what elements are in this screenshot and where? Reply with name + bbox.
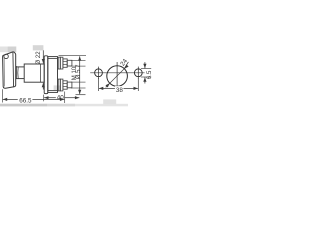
mounting flange — [44, 56, 48, 94]
svg-text:6.5: 6.5 — [146, 70, 153, 79]
dim dia22 leader — [42, 50, 44, 89]
dim dia6.5 — [141, 62, 151, 83]
svg-text:Ø 22: Ø 22 — [35, 51, 42, 65]
terminal stud top — [58, 57, 72, 69]
dim 66.5 — [2, 89, 64, 103]
bushing collar — [24, 64, 44, 82]
terminal stud bottom — [58, 79, 72, 91]
switch body — [48, 57, 58, 93]
watermark gray band bottom caption — [0, 104, 47, 107]
svg-text:38: 38 — [116, 87, 124, 94]
knob hole — [4, 54, 8, 58]
shaft — [16, 67, 25, 79]
watermark gray block below 38 dim — [103, 99, 116, 104]
dim dia24 diagonal — [106, 62, 129, 87]
watermark gray block top-left — [0, 47, 8, 53]
dim 38 — [99, 78, 139, 91]
hole right — [134, 67, 142, 79]
watermark gray block above dia22 text — [33, 45, 44, 50]
watermark gray block at lower terminal — [54, 85, 61, 90]
dim vertical body height line — [59, 56, 87, 95]
dim 40 — [44, 95, 80, 102]
main bore circle — [107, 62, 128, 88]
lever knob (side view) — [3, 52, 17, 88]
svg-text:40: 40 — [57, 95, 65, 102]
centerline horizontal — [90, 72, 144, 74]
hole left — [95, 67, 103, 79]
svg-text:66.5: 66.5 — [19, 97, 32, 104]
